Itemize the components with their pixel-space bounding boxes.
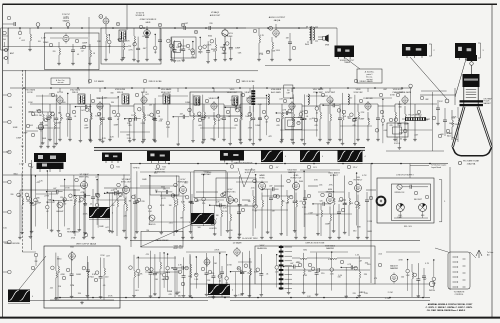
svg-text:125 V: 125 V [353, 167, 358, 169]
svg-text:TYPE 90: TYPE 90 [133, 168, 140, 170]
wire rail y163 [130, 163, 448, 165]
svg-text:IN64: IN64 [90, 277, 94, 279]
label row V refs [88, 79, 373, 83]
svg-text:2.2M: 2.2M [238, 294, 243, 296]
svg-text:270K: 270K [44, 196, 49, 198]
power box internals [394, 184, 429, 228]
svg-text:680: 680 [210, 139, 213, 141]
bottom section RC network 13 [298, 253, 312, 294]
if strip upper RC network 6 [97, 96, 110, 143]
mid section RC network 20 [262, 186, 279, 234]
svg-text:AGC GATE: AGC GATE [271, 91, 281, 94]
svg-text:1M: 1M [78, 202, 81, 204]
svg-text:470K: 470K [108, 296, 113, 298]
wire crt area verticals [431, 92, 433, 151]
waveform photo W5 horiz [191, 213, 217, 225]
svg-text:4: 4 [365, 156, 366, 158]
svg-text:330: 330 [357, 205, 361, 207]
top row extra RC network 4 [222, 44, 227, 55]
svg-text:4.7K: 4.7K [162, 198, 167, 200]
wire if strip interconnect [30, 103, 50, 105]
svg-text:12: 12 [195, 32, 197, 34]
tube stage 1ST IF [44, 92, 76, 141]
bottom right components [378, 263, 435, 297]
svg-text:.005: .005 [258, 118, 262, 120]
svg-text:1/2 6AW8: 1/2 6AW8 [94, 80, 104, 83]
box video det top [284, 85, 293, 98]
svg-text:1M: 1M [359, 260, 362, 262]
svg-text:IN64: IN64 [305, 44, 310, 46]
wire main strip verticals [60, 88, 368, 92]
svg-text:Layout Board: Layout Board [431, 166, 441, 169]
mid section RC network 12 [156, 188, 173, 234]
svg-text:3.3K: 3.3K [181, 202, 186, 204]
svg-text:100K: 100K [338, 201, 343, 203]
page border top rule [3, 3, 498, 5]
transformer T9 sound take-off pictorial [28, 153, 66, 172]
tube stage HV RECT [344, 177, 373, 239]
mid section RC network 24 [312, 200, 329, 235]
wire bus y71 [3, 70, 258, 72]
svg-text:.05: .05 [103, 285, 106, 287]
svg-text:SPKR: SPKR [325, 45, 330, 47]
svg-text:points 1: points 1 [367, 73, 373, 76]
box sound discriminator [171, 37, 196, 58]
svg-text:.001: .001 [319, 184, 324, 186]
svg-text:LOW VOLT SUPPLY: LOW VOLT SUPPLY [396, 175, 414, 177]
svg-text:10MF: 10MF [404, 124, 410, 126]
svg-text:IN64: IN64 [208, 36, 213, 38]
svg-text:VERT OUTPUT 6AQ5A: VERT OUTPUT 6AQ5A [76, 242, 97, 245]
top row RC network 3 [133, 37, 146, 63]
svg-text:H HOLD: H HOLD [209, 228, 217, 230]
svg-text:100: 100 [3, 228, 7, 230]
svg-text:330: 330 [126, 103, 130, 105]
svg-text:.047: .047 [269, 186, 273, 188]
svg-text:.047: .047 [290, 263, 294, 265]
output transformer T3 pictorial [335, 46, 355, 60]
svg-text:1/2 12AU7: 1/2 12AU7 [122, 178, 131, 181]
svg-text:22K: 22K [207, 280, 211, 282]
top row extra RC network 3 [203, 41, 215, 63]
svg-text:.047: .047 [184, 23, 189, 25]
svg-text:10MF: 10MF [424, 120, 430, 122]
svg-text:WIDTH: WIDTH [429, 290, 436, 292]
junction dots main buses [19, 27, 431, 298]
svg-text:330: 330 [229, 230, 233, 232]
if strip upper RC network 20 [276, 110, 293, 144]
svg-text:120K: 120K [207, 172, 213, 174]
svg-text:.01: .01 [77, 54, 79, 56]
tube V22 vert amp [69, 251, 76, 261]
svg-text:9: 9 [160, 25, 161, 27]
svg-text:1M: 1M [214, 263, 217, 265]
svg-text:2.2M: 2.2M [41, 38, 46, 40]
wire bottom mesh [136, 252, 420, 272]
svg-text:6CG7: 6CG7 [228, 189, 233, 191]
svg-text:.01: .01 [247, 272, 250, 274]
tube V3 sound if 2nd [99, 15, 109, 26]
svg-text:CHASSIS GROUND: CHASSIS GROUND [4, 242, 20, 245]
svg-text:ADMIRAL MODELS C2237A C2237AL: ADMIRAL MODELS C2237A C2237AL C2237 [428, 303, 473, 306]
svg-text:120: 120 [60, 197, 63, 199]
svg-text:22K: 22K [126, 40, 130, 42]
svg-text:FOC: FOC [439, 101, 443, 103]
svg-text:56K: 56K [286, 203, 290, 205]
svg-text:330: 330 [9, 107, 13, 109]
tube stage 3RD IF [128, 92, 160, 141]
coil striped pictorial [251, 85, 255, 112]
svg-text:68K: 68K [425, 99, 429, 101]
svg-text:2: 2 [433, 50, 434, 52]
tube stage VERT OSC [70, 173, 99, 239]
svg-text:DET: DET [287, 92, 290, 94]
antenna symbol remote [476, 250, 482, 258]
svg-text:V408 6AU4: V408 6AU4 [325, 244, 336, 247]
svg-text:FOCUS: FOCUS [394, 143, 401, 145]
svg-text:.005: .005 [250, 188, 255, 190]
svg-text:1M: 1M [58, 286, 61, 288]
svg-text:4: 4 [270, 28, 271, 30]
svg-text:1.5K: 1.5K [406, 275, 411, 277]
bottom section RC network 10 [256, 254, 268, 296]
svg-text:330: 330 [154, 279, 158, 281]
sound if box internals [49, 38, 96, 65]
if strip upper RC network 5 [85, 94, 99, 142]
test point TP2 [66, 23, 70, 27]
capacitor C4 [208, 26, 210, 30]
svg-text:B+ BOOST 285V: B+ BOOST 285V [242, 238, 258, 240]
tube V1 sound if amp [63, 34, 69, 44]
svg-text:INTERLOCK: INTERLOCK [395, 192, 406, 194]
bottom section RC network 2 [145, 251, 158, 298]
stage designation labels [25, 11, 404, 250]
svg-text:330K: 330K [168, 291, 173, 293]
mid section RC network 4 [53, 197, 70, 232]
svg-text:.005: .005 [349, 203, 353, 205]
svg-text:3.3K: 3.3K [254, 272, 259, 274]
svg-text:6AQ5A: 6AQ5A [274, 19, 281, 22]
svg-text:47K: 47K [268, 136, 272, 138]
if strip upper RC network 12 [173, 113, 190, 146]
svg-text:2.2M: 2.2M [388, 292, 393, 294]
test point TP1 [36, 23, 40, 27]
svg-text:4.7K: 4.7K [258, 104, 263, 106]
svg-text:1M: 1M [286, 37, 289, 39]
svg-text:330: 330 [111, 102, 114, 104]
bottom mid extra RC network 6 [208, 256, 220, 299]
if strip upper RC network 26 [350, 95, 365, 146]
svg-text:470K: 470K [227, 264, 232, 266]
if strip upper RC network 1 [37, 95, 52, 145]
box remote control socket [448, 252, 470, 289]
svg-text:GAAGK: GAAGK [63, 20, 70, 23]
svg-text:.005: .005 [378, 254, 383, 256]
svg-text:4: 4 [216, 219, 217, 221]
svg-text:120K: 120K [38, 129, 43, 131]
svg-text:SEL RECT: SEL RECT [414, 199, 422, 201]
if strip upper RC network 19 [265, 95, 269, 135]
box osc amp [150, 176, 179, 195]
ref numbers sound stages [116, 22, 120, 26]
svg-text:680: 680 [178, 296, 182, 298]
wire coupling row [162, 27, 184, 29]
svg-text:4: 4 [285, 156, 286, 158]
svg-text:ANT: ANT [10, 52, 15, 55]
svg-text:120K: 120K [83, 213, 88, 215]
top row RC network 8 [210, 38, 225, 62]
svg-text:1M: 1M [248, 201, 251, 203]
box 4.5mc sound if shield [101, 28, 161, 64]
svg-text:4: 4 [32, 296, 33, 298]
pot height [57, 202, 63, 208]
svg-text:100: 100 [38, 41, 41, 43]
tube stage HORIZ OSC [216, 189, 245, 239]
svg-text:10MF: 10MF [189, 222, 195, 224]
tube V23 audio det [234, 247, 240, 257]
svg-text:.005: .005 [364, 262, 368, 264]
leader focus magnet to crt [455, 59, 466, 97]
leader waveform w5 long [140, 224, 192, 247]
svg-text:220: 220 [105, 277, 108, 279]
svg-text:100K: 100K [47, 117, 52, 119]
svg-text:VIDEO 6AW8: VIDEO 6AW8 [359, 80, 373, 83]
wire rail left y175 [3, 174, 130, 176]
mid section RC network 21 [276, 174, 290, 235]
mid section RC network 6 [80, 175, 92, 234]
svg-text:22K: 22K [67, 229, 71, 231]
box vert lin controls [194, 171, 226, 198]
wire divider x450 [449, 167, 451, 290]
bottom section RC network 7 [218, 253, 222, 290]
top row RC network 7 [198, 37, 203, 54]
svg-text:IN64: IN64 [299, 181, 304, 183]
svg-text:1ST IF: 1ST IF [27, 92, 33, 94]
crt neck [463, 74, 480, 106]
svg-text:HV RECT: HV RECT [354, 180, 364, 182]
svg-text:.01: .01 [61, 118, 64, 120]
svg-text:330: 330 [338, 277, 341, 279]
svg-text:3.9K: 3.9K [105, 218, 110, 220]
tube socket V21 rectifier [419, 203, 427, 211]
svg-text:680: 680 [303, 249, 307, 251]
svg-text:3RD IF 6CB6: 3RD IF 6CB6 [241, 81, 255, 83]
pre-crt area RC network 2 [394, 101, 409, 149]
box range finder [141, 231, 183, 247]
mid extra RC network 4 [74, 192, 91, 232]
leader blob to note [344, 57, 360, 69]
capacitor C2 [145, 35, 149, 37]
bottom section RC network 3 [162, 252, 167, 288]
svg-text:470K: 470K [71, 238, 76, 240]
svg-text:T101: T101 [116, 166, 120, 168]
wire power box feed [409, 164, 411, 179]
svg-text:4.7K: 4.7K [223, 207, 228, 209]
svg-text:1.2K: 1.2K [196, 102, 201, 104]
svg-text:3: 3 [100, 16, 101, 18]
svg-text:220: 220 [53, 51, 56, 53]
svg-text:.01: .01 [188, 49, 191, 51]
mid section RC network 8 [107, 189, 124, 233]
bottom section RC network 16 [341, 264, 358, 298]
peaking coils video [268, 94, 269, 104]
svg-text:PIX: PIX [287, 90, 291, 92]
bottom section RC network 1 [129, 255, 143, 297]
svg-text:270K: 270K [95, 194, 100, 196]
svg-text:T102: T102 [162, 166, 166, 168]
mid section RC network 3 [46, 170, 50, 229]
svg-text:1M: 1M [180, 218, 183, 220]
svg-text:SYNC OUT: SYNC OUT [121, 182, 132, 184]
bottom mid extra RC network 3 [165, 253, 170, 291]
svg-text:2.2M: 2.2M [127, 138, 132, 140]
svg-text:470K: 470K [214, 250, 220, 252]
svg-text:6AW8: 6AW8 [259, 174, 264, 177]
wire 2nd sound stage [105, 25, 107, 34]
svg-text:30 V: 30 V [313, 167, 317, 169]
ground 2nd sound stage [105, 58, 107, 59]
svg-text:470: 470 [314, 125, 317, 127]
mid section RC network 26 [339, 176, 352, 235]
svg-text:5.040: 5.040 [64, 16, 69, 18]
wire mid horizontals2 [36, 192, 344, 200]
mid section RC network 23 [302, 171, 307, 227]
svg-text:HORIZ OUT: HORIZ OUT [245, 172, 256, 174]
svg-text:.047: .047 [414, 135, 419, 137]
svg-text:.01: .01 [218, 276, 221, 278]
svg-text:22K: 22K [34, 261, 38, 263]
svg-text:100: 100 [312, 118, 316, 120]
svg-text:10MF: 10MF [43, 42, 49, 44]
svg-text:HORIZ OUT: HORIZ OUT [291, 178, 303, 180]
svg-text:10MF: 10MF [114, 124, 120, 126]
svg-text:DAMPER: DAMPER [326, 247, 335, 250]
bracket power box [439, 179, 442, 181]
svg-text:300: 300 [3, 39, 6, 41]
svg-text:1.5K: 1.5K [432, 283, 437, 285]
svg-text:1M: 1M [272, 211, 275, 213]
svg-text:1M: 1M [146, 230, 149, 232]
svg-text:VERT OUT: VERT OUT [173, 248, 183, 250]
svg-text:.047: .047 [179, 113, 183, 115]
svg-text:47K: 47K [329, 184, 333, 186]
svg-text:120: 120 [320, 200, 323, 202]
svg-text:DAMPER: DAMPER [288, 171, 297, 174]
bottom section RC network 12 [283, 263, 300, 294]
svg-text:.005: .005 [155, 273, 159, 275]
svg-text:10MF: 10MF [82, 43, 88, 45]
svg-text:AUDIO OUTPUT: AUDIO OUTPUT [269, 16, 286, 19]
tube stage 2ND IF [84, 98, 116, 141]
svg-text:1.5K: 1.5K [302, 207, 307, 209]
svg-text:120: 120 [131, 115, 134, 117]
if strip upper RC network 7 [116, 96, 120, 137]
svg-text:22K: 22K [440, 134, 444, 136]
top row RC network 6 [178, 39, 190, 62]
svg-text:.01: .01 [158, 116, 161, 118]
svg-text:120K: 120K [361, 292, 366, 294]
focus magnet pictorial [455, 43, 476, 60]
crt area refs [375, 129, 379, 133]
mid section RC network 13 [171, 175, 185, 232]
svg-text:1.2K: 1.2K [300, 111, 305, 113]
if strip upper RC network 25 [337, 93, 350, 145]
bracket focus dimension [478, 42, 481, 44]
remote socket pins [453, 256, 466, 287]
svg-text:1M: 1M [216, 215, 219, 217]
wire top row drops [8, 5, 337, 84]
svg-text:5: 5 [444, 201, 445, 203]
note box service [357, 69, 382, 83]
svg-text:4.7K: 4.7K [425, 263, 430, 265]
box yoke interconnect [255, 246, 375, 284]
svg-text:1.2K: 1.2K [46, 115, 51, 117]
svg-text:HEIGHT: HEIGHT [56, 211, 64, 213]
svg-text:56K: 56K [451, 124, 455, 126]
svg-text:3RD IF: 3RD IF [117, 92, 124, 94]
wire tuner riser [25, 70, 27, 163]
tube stage VIDEO DET [198, 98, 230, 141]
mid section RC network 10 [132, 171, 145, 233]
wire audio out plate [275, 24, 277, 28]
bottom section RC network 9 [244, 251, 258, 298]
if strip upper RC network 4 [75, 103, 92, 142]
bottom mid components [160, 252, 252, 297]
wire mid interconnects [18, 186, 376, 239]
svg-text:A. Dec. Osc.: A. Dec. Osc. [56, 79, 66, 82]
svg-text:47K: 47K [146, 254, 150, 256]
waveform photo W6 bottom left [8, 290, 33, 304]
transformer T6 3rd if [163, 94, 170, 104]
svg-text:470: 470 [128, 125, 131, 127]
box sound if shield [45, 33, 99, 70]
svg-text:RANGE FINDER: RANGE FINDER [156, 239, 170, 242]
bottom left box RC network 1 [51, 253, 66, 300]
wire mid mesh [60, 170, 352, 222]
if transformer pictorial A [102, 153, 122, 164]
svg-text:120: 120 [163, 188, 166, 190]
svg-text:START STOP MONITOR: START STOP MONITOR [234, 162, 254, 165]
mid section RC network 22 [289, 173, 301, 233]
svg-text:4.7K: 4.7K [362, 175, 367, 177]
svg-text:21ALP4A: 21ALP4A [467, 163, 476, 166]
svg-text:22K: 22K [124, 216, 128, 218]
svg-text:2.2M: 2.2M [385, 298, 390, 300]
svg-text:.047: .047 [30, 167, 34, 169]
svg-text:1.5K: 1.5K [166, 127, 171, 129]
svg-text:270K: 270K [65, 187, 70, 189]
wire bus y65 audio [265, 65, 330, 67]
svg-text:10MF: 10MF [76, 274, 82, 276]
svg-text:1.2K: 1.2K [259, 54, 264, 56]
svg-text:3: 3 [482, 50, 483, 52]
wire bus y46 left [3, 46, 128, 48]
waveform photo W7 [208, 284, 233, 296]
svg-text:1M: 1M [70, 200, 73, 202]
leader waveform to sync tube [110, 193, 123, 207]
svg-text:10MF: 10MF [142, 179, 148, 181]
left border tick stubs [3, 93, 12, 274]
svg-text:.001: .001 [169, 222, 174, 224]
box focus control [387, 123, 408, 137]
svg-text:10MF: 10MF [13, 127, 19, 129]
svg-text:.01: .01 [74, 116, 77, 118]
box left edge input [1, 28, 8, 50]
svg-text:2.2M: 2.2M [19, 163, 24, 165]
mid section RC network 19 [254, 174, 258, 228]
svg-text:1.2K: 1.2K [173, 195, 178, 197]
svg-text:DAMPER: DAMPER [390, 267, 399, 270]
